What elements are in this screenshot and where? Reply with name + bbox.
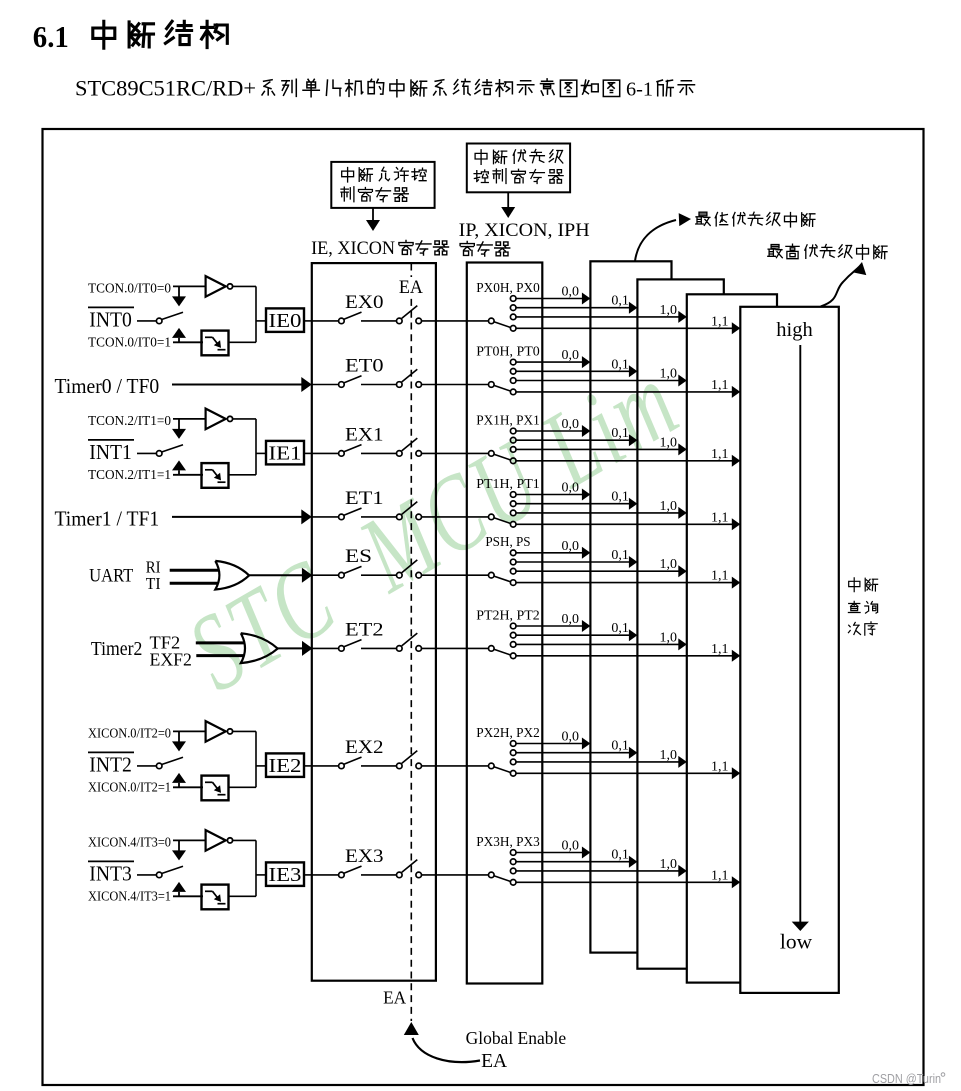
- svg-text:IE0: IE0: [269, 310, 302, 332]
- arrow select (bottom) INT2: [172, 773, 186, 787]
- wire TCON.0/IT0=0 to inverter: [173, 285, 206, 287]
- label EA (top): [396, 277, 426, 298]
- switch priority-select (PX2H, PX2): [489, 763, 511, 772]
- svg-text:Timer1 / TF1: Timer1 / TF1: [55, 506, 160, 530]
- wire IE3 to IE box: [304, 874, 312, 876]
- wire priority 0,0 (PT2H, PT2): [516, 620, 590, 632]
- inverter (INT1 level-mode): [206, 409, 233, 430]
- arrow select (bottom) INT1: [172, 460, 186, 474]
- svg-text:EXF2: EXF2: [150, 649, 192, 669]
- label 1,0 (PX3H, PX3): [660, 857, 678, 872]
- svg-text:UART: UART: [89, 565, 134, 586]
- wire EXF2 to OR gate: [196, 654, 247, 657]
- wire edge detector out: [229, 474, 257, 476]
- label 0,1 (PX2H, PX2): [611, 739, 629, 754]
- wire OR join INT1: [256, 419, 266, 475]
- label 1,1 (PX0H, PX0): [711, 314, 729, 329]
- label 1,1 (PT1H, PT1): [711, 510, 729, 525]
- wire priority 0,1 (PX0H, PX0): [516, 302, 637, 314]
- wire priority 0,0 (PT1H, PT1): [516, 489, 590, 501]
- wire XICON.0/IT2=0 to inverter: [173, 730, 206, 732]
- wire EX2 to EA switch: [361, 765, 397, 767]
- wire priority 1,0 (PX0H, PX0): [516, 311, 687, 323]
- svg-text:PX2H, PX2: PX2H, PX2: [476, 726, 540, 741]
- arrow Global Enable to EA line: [404, 1022, 480, 1062]
- svg-text:1,1: 1,1: [711, 569, 729, 584]
- svg-text:0,0: 0,0: [562, 612, 580, 627]
- wire row ET0 to IP box: [422, 384, 489, 386]
- wire priority 0,1 (PT1H, PT1): [516, 498, 637, 510]
- label TCON.2/IT1=1: [88, 467, 171, 482]
- svg-text:TI: TI: [146, 574, 161, 593]
- wire into switch EX1: [312, 452, 339, 454]
- label 1,1 (PX3H, PX3): [711, 868, 729, 883]
- label 0,0 (PT2H, PT2): [562, 612, 580, 627]
- switch priority-select (PSH, PS): [489, 572, 511, 581]
- wire into switch EX2: [312, 765, 339, 767]
- wire ET2 to EA switch: [361, 647, 397, 649]
- wire priority 1,0 (PX2H, PX2): [516, 756, 687, 768]
- wire priority 1,1 (PT0H, PT0): [516, 386, 740, 398]
- arrow select (top) INT1: [172, 419, 186, 439]
- priority box 0,0: [590, 261, 671, 952]
- wire XICON.0/IT2=1 to edge detector: [173, 786, 203, 788]
- label EXF2: [150, 649, 192, 669]
- svg-text:IE3: IE3: [269, 864, 302, 886]
- wire ET0 to EA switch: [361, 384, 397, 386]
- priority box 0,1: [637, 279, 723, 968]
- node priority outputs (PT1H, PT1): [510, 492, 516, 527]
- label 0,1 (PT0H, PT0): [611, 357, 629, 372]
- label ET2: [345, 619, 384, 640]
- edge detector (INT2 edge-mode): [202, 776, 229, 801]
- wire ET1 to EA switch: [361, 516, 397, 518]
- register box IP/XICON/IPH: [467, 263, 543, 984]
- wire ES to EA switch: [361, 574, 397, 576]
- label INT0: [89, 307, 132, 331]
- wire into switch ET0: [312, 384, 339, 386]
- label 1,1 (PX2H, PX2): [711, 759, 729, 774]
- edge detector (INT1 edge-mode): [202, 463, 229, 488]
- label Global Enable: [466, 1028, 567, 1048]
- svg-text:EA: EA: [399, 278, 424, 298]
- switch INT0 mode-select: [156, 312, 183, 323]
- label 0,0 (PX2H, PX2): [562, 730, 580, 745]
- label 0,1 (PX3H, PX3): [611, 848, 629, 863]
- label Timer1 / TF1: [55, 506, 160, 530]
- watermark STC MCU: [169, 338, 699, 714]
- wire edge detector out: [229, 341, 257, 343]
- label XICON.0/IT2=1: [88, 779, 171, 794]
- label 0,1 (PT2H, PT2): [611, 621, 629, 636]
- svg-text:0,1: 0,1: [611, 848, 629, 863]
- overline INT1: [88, 439, 134, 441]
- wire priority 0,0 (PX3H, PX3): [516, 847, 590, 859]
- arrow select (bottom) INT3: [172, 882, 186, 896]
- label XICON.0/IT2=0: [88, 726, 171, 741]
- wire row EX2 to IP box: [422, 765, 489, 767]
- wire OR out to IE box: [278, 641, 313, 656]
- node IE3: [266, 862, 304, 886]
- label 寄存器 (IP): [460, 242, 510, 257]
- label 最高优先级中断: [768, 244, 887, 259]
- label 0,0 (PSH, PS): [562, 539, 580, 554]
- svg-text:0,1: 0,1: [611, 294, 629, 309]
- label INT1: [89, 440, 132, 464]
- wire INT3 to switch: [137, 874, 157, 876]
- svg-text:MCU: MCU: [339, 416, 563, 616]
- wire row ET1 to IP box: [422, 516, 489, 518]
- label TCON.0/IT0=1: [88, 334, 171, 349]
- wire INT2 to switch: [137, 765, 157, 767]
- wire into switch ET2: [312, 647, 339, 649]
- svg-text:1,1: 1,1: [711, 868, 729, 883]
- inverter (INT2 level-mode): [206, 721, 233, 742]
- switch EA (row EX1): [397, 438, 422, 456]
- svg-text:EX0: EX0: [345, 292, 384, 313]
- label 0,1 (PT1H, PT1): [611, 490, 629, 505]
- svg-text:1,0: 1,0: [660, 748, 678, 763]
- overline INT0: [88, 306, 134, 308]
- edge detector (INT0 edge-mode): [202, 331, 229, 356]
- wire inverter out: [233, 285, 256, 287]
- priority box 1,0: [687, 294, 777, 982]
- wire INT1 to switch: [137, 452, 157, 454]
- arrow from 优先级 box to IP register: [501, 192, 515, 218]
- arrow to 最低优先级中断: [635, 213, 691, 261]
- wire OR out to IE box: [249, 568, 312, 583]
- svg-text:0,1: 0,1: [611, 621, 629, 636]
- wire Timer0 / TF0 to IE box: [172, 377, 312, 392]
- wire priority 0,0 (PX1H, PX1): [516, 425, 590, 437]
- switch ET1: [339, 508, 362, 520]
- EA global-enable dashed line: [410, 264, 412, 1022]
- svg-text:0,1: 0,1: [611, 548, 629, 563]
- switch EX1: [339, 445, 362, 457]
- svg-text:PT2H, PT2: PT2H, PT2: [476, 608, 540, 623]
- svg-text:0,0: 0,0: [562, 539, 580, 554]
- svg-text:Timer2: Timer2: [91, 639, 142, 660]
- svg-text:EX1: EX1: [345, 424, 384, 445]
- label 0,0 (PT1H, PT1): [562, 481, 580, 496]
- switch priority-select (PT0H, PT0): [489, 382, 511, 391]
- svg-text:INT1: INT1: [89, 440, 132, 464]
- switch INT3 mode-select: [156, 866, 183, 877]
- svg-text:XICON.4/IT3=1: XICON.4/IT3=1: [88, 888, 171, 903]
- svg-text:CSDN @Turin: CSDN @Turin: [872, 1071, 941, 1086]
- wire RI to OR gate: [170, 569, 221, 572]
- switch EX3: [339, 866, 362, 878]
- inverter (INT0 level-mode): [206, 276, 233, 297]
- wire priority 0,0 (PX0H, PX0): [516, 293, 590, 305]
- svg-text:high: high: [776, 319, 812, 341]
- wire INT0 to switch: [137, 320, 157, 322]
- label 0,1 (PX0H, PX0): [611, 294, 629, 309]
- label 0,0 (PX3H, PX3): [562, 839, 580, 854]
- label PX3H, PX3: [476, 835, 540, 850]
- wire TF2 to OR gate: [196, 641, 247, 644]
- svg-text:6.1: 6.1: [33, 19, 69, 54]
- wire priority 0,1 (PX3H, PX3): [516, 856, 637, 868]
- wire priority 0,1 (PSH, PS): [516, 556, 637, 568]
- wire row ET2 to IP box: [422, 647, 489, 649]
- wire Timer1 / TF1 to IE box: [172, 509, 312, 524]
- label box 中断优先级控制寄存器: [467, 144, 570, 193]
- label ES: [345, 546, 372, 567]
- label 1,0 (PT2H, PT2): [660, 630, 678, 645]
- label 中断查询次序: [848, 578, 877, 635]
- switch ET0: [339, 376, 362, 388]
- svg-text:1,0: 1,0: [660, 630, 678, 645]
- svg-text:Global Enable: Global Enable: [466, 1028, 567, 1048]
- svg-text:1,1: 1,1: [711, 447, 729, 462]
- wire OR join INT0: [256, 286, 266, 342]
- svg-text:1,1: 1,1: [711, 642, 729, 657]
- label EX2: [345, 737, 384, 758]
- label Timer2: [91, 639, 142, 660]
- label 1,0 (PX1H, PX1): [660, 435, 678, 450]
- title 中断结构: [93, 21, 228, 48]
- label EA (global enable): [481, 1051, 507, 1072]
- node priority outputs (PX3H, PX3): [510, 850, 516, 885]
- label TCON.2/IT1=0: [88, 413, 171, 428]
- title 6.1: [33, 19, 69, 54]
- wire XICON.4/IT3=1 to edge detector: [173, 895, 203, 897]
- label TF2: [150, 633, 181, 653]
- label PX1H, PX1: [476, 413, 540, 428]
- wire row EX3 to IP box: [422, 874, 489, 876]
- wire row EX0 to IP box: [422, 320, 489, 322]
- label PT0H, PT0: [476, 345, 540, 360]
- svg-text:6-1: 6-1: [626, 78, 653, 100]
- svg-text:TCON.0/IT0=1: TCON.0/IT0=1: [88, 334, 171, 349]
- svg-text:PT0H, PT0: PT0H, PT0: [476, 345, 540, 360]
- svg-text:INT0: INT0: [89, 307, 132, 331]
- label PX0H, PX0: [476, 281, 540, 296]
- label EX0: [345, 292, 384, 313]
- svg-text:0,1: 0,1: [611, 739, 629, 754]
- wire OR join INT2: [256, 731, 266, 787]
- or-gate Timer2 (TF2|EXF2): [241, 633, 278, 663]
- label 1,0 (PX2H, PX2): [660, 748, 678, 763]
- wire into switch EX3: [312, 874, 339, 876]
- wire TCON.0/IT0=1 to edge detector: [173, 341, 203, 343]
- svg-text:1,1: 1,1: [711, 314, 729, 329]
- svg-text:STC: STC: [169, 535, 357, 714]
- wire priority 1,0 (PX3H, PX3): [516, 865, 687, 877]
- subtitle 所示: [657, 80, 695, 96]
- label 0,1 (PX1H, PX1): [611, 426, 629, 441]
- svg-text:EA: EA: [383, 988, 406, 1008]
- wire priority 0,0 (PT0H, PT0): [516, 356, 590, 368]
- wire priority 1,1 (PT1H, PT1): [516, 518, 740, 530]
- wire EX1 to EA switch: [361, 452, 397, 454]
- svg-text:XICON.0/IT2=0: XICON.0/IT2=0: [88, 726, 171, 741]
- label PT1H, PT1: [476, 477, 540, 492]
- label UART: [89, 565, 134, 586]
- svg-text:0,0: 0,0: [562, 730, 580, 745]
- label TI: [146, 574, 161, 593]
- watermark CSDN @Turin: [872, 1071, 945, 1086]
- node priority outputs (PX1H, PX1): [510, 428, 516, 463]
- switch EA (row EX2): [397, 751, 422, 769]
- wire priority 1,0 (PSH, PS): [516, 565, 687, 577]
- label INT3: [89, 861, 132, 885]
- svg-text:Timer0 / TF0: Timer0 / TF0: [55, 374, 160, 398]
- node priority outputs (PSH, PS): [510, 550, 516, 585]
- priority box 1,1 (query order): [740, 307, 839, 993]
- wire TCON.2/IT1=1 to edge detector: [173, 474, 203, 476]
- wire EX0 to EA switch: [361, 320, 397, 322]
- label EA (bottom): [383, 988, 406, 1008]
- switch EA (row EX3): [397, 860, 422, 878]
- switch priority-select (PT2H, PT2): [489, 646, 511, 655]
- label XICON.4/IT3=1: [88, 888, 171, 903]
- wire priority 0,0 (PSH, PS): [516, 547, 590, 559]
- wire inverter out: [233, 839, 256, 841]
- node IE0: [266, 308, 304, 332]
- wire priority 0,1 (PX2H, PX2): [516, 747, 637, 759]
- switch INT1 mode-select: [156, 445, 183, 456]
- svg-text:EX3: EX3: [345, 846, 384, 867]
- label IP, XICON, IPH: [459, 220, 590, 241]
- label 1,0 (PSH, PS): [660, 557, 678, 572]
- node IE2: [266, 753, 304, 777]
- label EX3: [345, 846, 384, 867]
- label INT2: [89, 752, 132, 776]
- wire inverter out: [233, 730, 256, 732]
- svg-text:1,0: 1,0: [660, 557, 678, 572]
- svg-text:PX3H, PX3: PX3H, PX3: [476, 835, 540, 850]
- label 1,0 (PX0H, PX0): [660, 303, 678, 318]
- wire priority 0,1 (PX1H, PX1): [516, 434, 637, 446]
- svg-text:TCON.0/IT0=0: TCON.0/IT0=0: [88, 281, 171, 296]
- node priority outputs (PX2H, PX2): [510, 741, 516, 776]
- wire TCON.2/IT1=0 to inverter: [173, 418, 206, 420]
- label PT2H, PT2: [476, 608, 540, 623]
- wire priority 1,1 (PX2H, PX2): [516, 767, 740, 779]
- arrow select (top) INT3: [172, 840, 186, 860]
- arrow high to low (query order): [792, 345, 809, 931]
- switch priority-select (PX3H, PX3): [489, 872, 511, 881]
- label 0,0 (PX0H, PX0): [562, 285, 580, 300]
- label 1,0 (PT1H, PT1): [660, 499, 678, 514]
- wire edge detector out: [229, 786, 257, 788]
- subtitle CJK run: [262, 79, 620, 97]
- wire priority 0,1 (PT0H, PT0): [516, 365, 637, 377]
- wire OR join INT3: [256, 840, 266, 896]
- svg-text:EX2: EX2: [345, 737, 384, 758]
- label RI: [146, 557, 161, 576]
- subtitle 6-1: [626, 78, 653, 100]
- svg-text:INT3: INT3: [89, 861, 132, 885]
- or-gate UART (RI|TI): [215, 561, 249, 590]
- label 最低优先级中断: [696, 212, 815, 227]
- label EX1: [345, 424, 384, 445]
- svg-text:IE1: IE1: [269, 443, 302, 465]
- label box 中断允许控制寄存器: [331, 162, 434, 208]
- wire edge detector out: [229, 895, 257, 897]
- node priority outputs (PT2H, PT2): [510, 623, 516, 658]
- label PSH, PS: [485, 535, 530, 550]
- subtitle STC89C51RC/RD+: [75, 75, 256, 100]
- wire priority 1,0 (PX1H, PX1): [516, 443, 687, 455]
- switch INT2 mode-select: [156, 757, 183, 768]
- wire priority 1,0 (PT2H, PT2): [516, 638, 687, 650]
- wire priority 1,1 (PX1H, PX1): [516, 455, 740, 467]
- svg-text:0,0: 0,0: [562, 285, 580, 300]
- label IE, XICON寄存器: [311, 238, 448, 259]
- wire inverter out: [233, 418, 256, 420]
- switch ET2: [339, 640, 362, 652]
- label PX2H, PX2: [476, 726, 540, 741]
- switch ES: [339, 566, 362, 578]
- wire priority 1,1 (PX0H, PX0): [516, 322, 740, 334]
- label low: [780, 930, 813, 954]
- register box IE/XICON: [312, 263, 436, 981]
- svg-text:XICON.4/IT3=0: XICON.4/IT3=0: [88, 835, 171, 850]
- arrow select (top) INT2: [172, 731, 186, 751]
- label 1,1 (PX1H, PX1): [711, 447, 729, 462]
- wire priority 1,1 (PSH, PS): [516, 577, 740, 589]
- label TCON.0/IT0=0: [88, 281, 171, 296]
- svg-text:ET0: ET0: [345, 356, 384, 377]
- arrow select (top) INT0: [172, 286, 186, 306]
- wire TI to OR gate: [170, 582, 221, 585]
- switch priority-select (PX1H, PX1): [489, 451, 511, 460]
- edge detector (INT3 edge-mode): [202, 885, 229, 910]
- arrow from 允许 box to IE register: [366, 208, 380, 231]
- wire IE1 to IE box: [304, 452, 312, 454]
- svg-text:IE, XICON: IE, XICON: [311, 238, 395, 259]
- switch EA (row ET1): [397, 502, 422, 520]
- wire priority 1,0 (PT1H, PT1): [516, 507, 687, 519]
- switch priority-select (PX0H, PX0): [489, 318, 511, 327]
- switch EA (row ES): [397, 560, 422, 578]
- node IE1: [266, 441, 304, 465]
- node priority outputs (PX0H, PX0): [510, 296, 516, 331]
- svg-text:low: low: [780, 930, 813, 954]
- svg-text:XICON.0/IT2=1: XICON.0/IT2=1: [88, 779, 171, 794]
- svg-text:1,0: 1,0: [660, 367, 678, 382]
- wire IE0 to IE box: [304, 320, 312, 322]
- wire IE2 to IE box: [304, 765, 312, 767]
- wire priority 1,1 (PX3H, PX3): [516, 876, 740, 888]
- wire priority 1,0 (PT0H, PT0): [516, 375, 687, 387]
- node priority outputs (PT0H, PT0): [510, 359, 516, 394]
- wire into switch EX0: [312, 320, 339, 322]
- svg-text:1,0: 1,0: [660, 499, 678, 514]
- svg-text:1,0: 1,0: [660, 303, 678, 318]
- label 1,0 (PT0H, PT0): [660, 367, 678, 382]
- arrow to 最高优先级中断: [821, 262, 867, 307]
- svg-text:INT2: INT2: [89, 752, 132, 776]
- label ET0: [345, 356, 384, 377]
- svg-text:1,1: 1,1: [711, 510, 729, 525]
- wire priority 0,0 (PX2H, PX2): [516, 738, 590, 750]
- label 1,1 (PT2H, PT2): [711, 642, 729, 657]
- switch EX0: [339, 312, 362, 324]
- label ET1: [345, 488, 384, 509]
- wire row EX1 to IP box: [422, 452, 489, 454]
- svg-text:1,1: 1,1: [711, 378, 729, 393]
- wire priority 1,1 (PT2H, PT2): [516, 650, 740, 662]
- label 0,1 (PSH, PS): [611, 548, 629, 563]
- svg-text:0,0: 0,0: [562, 839, 580, 854]
- svg-text:PX0H, PX0: PX0H, PX0: [476, 281, 540, 296]
- wire into switch ES: [312, 574, 339, 576]
- svg-text:TCON.2/IT1=0: TCON.2/IT1=0: [88, 413, 171, 428]
